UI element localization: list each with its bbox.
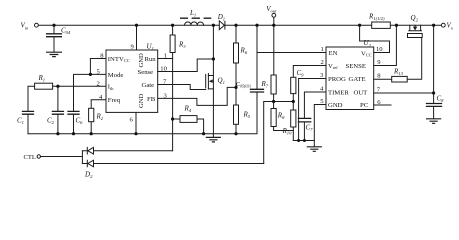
svg-text:Gate: Gate <box>142 82 155 89</box>
svg-text:PC: PC <box>360 102 369 109</box>
svg-text:Sense: Sense <box>138 69 154 76</box>
svg-text:Run: Run <box>145 56 157 63</box>
svg-text:10: 10 <box>160 66 167 73</box>
svg-text:GND: GND <box>138 93 145 108</box>
svg-text:FB: FB <box>147 96 156 103</box>
svg-text:C05(03): C05(03) <box>236 82 251 88</box>
svg-text:OUT: OUT <box>354 90 368 97</box>
svg-text:CTL: CTL <box>24 154 36 161</box>
svg-text:1: 1 <box>164 53 167 60</box>
svg-text:SENSE: SENSE <box>346 63 366 70</box>
svg-text:PROG: PROG <box>328 76 346 83</box>
svg-text:1: 1 <box>321 46 324 53</box>
svg-text:EN: EN <box>329 50 338 57</box>
svg-text:GND: GND <box>328 102 343 109</box>
svg-text:TIMER: TIMER <box>328 90 349 97</box>
svg-text:10: 10 <box>376 46 383 53</box>
svg-text:2: 2 <box>97 80 100 87</box>
svg-text:Mode: Mode <box>108 72 124 79</box>
svg-text:Freq: Freq <box>108 97 121 104</box>
svg-text:GND: GND <box>138 53 145 68</box>
svg-text:2: 2 <box>321 59 324 66</box>
svg-text:GATE: GATE <box>349 76 366 83</box>
